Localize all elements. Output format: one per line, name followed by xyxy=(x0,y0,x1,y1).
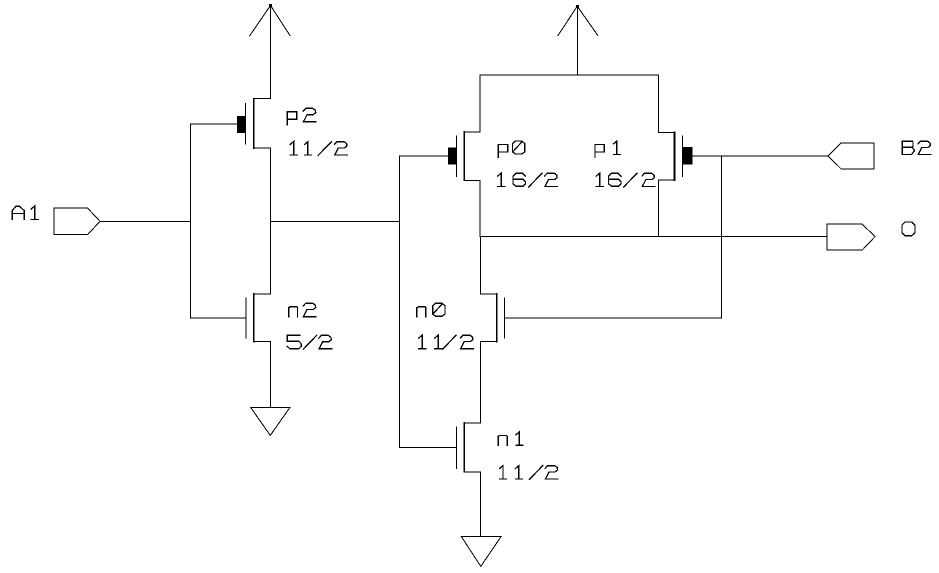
label n0 size 11/2 xyxy=(419,335,474,349)
wire B2 to n0 gate vertical xyxy=(721,156,723,318)
label n0 xyxy=(417,303,445,316)
label B2 xyxy=(902,141,931,154)
wire p2 gate xyxy=(191,123,238,125)
label p0 size 16/2 xyxy=(498,173,558,187)
label p1 xyxy=(595,141,621,157)
wire n0 source to n1 drain xyxy=(480,342,482,424)
wire p0 drain xyxy=(479,75,481,132)
wire p2 source to n2 drain xyxy=(269,148,271,294)
wire n1 source to ground xyxy=(479,472,481,537)
wire n1 gate xyxy=(400,447,457,449)
wire p0 gate xyxy=(400,155,449,157)
port A1 connector xyxy=(54,208,100,235)
label O xyxy=(902,222,915,236)
ground (right) xyxy=(461,537,501,567)
wire p1 gate to B2 xyxy=(692,155,828,157)
port B2 connector xyxy=(828,143,874,169)
label p2 xyxy=(287,108,316,124)
transistor n2 xyxy=(246,294,270,342)
transistor n1 xyxy=(456,423,480,472)
label n1 xyxy=(498,432,523,445)
ground (left) xyxy=(251,408,290,436)
transistor n0 xyxy=(481,294,505,342)
wire n0 drain xyxy=(480,237,482,295)
wire n2 gate xyxy=(191,317,246,319)
wire p1 drain xyxy=(658,75,660,132)
wire gate bus A1 xyxy=(190,124,192,318)
transistor p1 xyxy=(659,132,692,180)
label p1 size 16/2 xyxy=(596,173,655,187)
transistor p2 xyxy=(238,99,271,148)
wire output rail O xyxy=(480,236,827,238)
label n2 size 5/2 xyxy=(287,335,331,349)
wire VDD rail xyxy=(480,74,659,76)
wire p1 source xyxy=(658,180,660,236)
label p2 size 11/2 xyxy=(290,142,347,156)
port O connector xyxy=(827,224,875,250)
VDD supply arrow (right) xyxy=(558,5,598,75)
node first-stage output wire xyxy=(270,220,399,222)
label p0 xyxy=(498,141,524,157)
wire n0 gate xyxy=(504,317,721,319)
wire A1 input xyxy=(100,220,191,222)
wire n2 source to ground xyxy=(269,342,271,408)
label n2 xyxy=(289,303,316,316)
label n1 size 11/2 xyxy=(500,466,558,480)
VDD supply arrow (left) xyxy=(250,4,290,99)
wire p0 source xyxy=(479,180,481,236)
wire gate bus 2 xyxy=(399,156,401,447)
transistor p0 xyxy=(448,132,480,180)
label A1 xyxy=(12,206,38,219)
